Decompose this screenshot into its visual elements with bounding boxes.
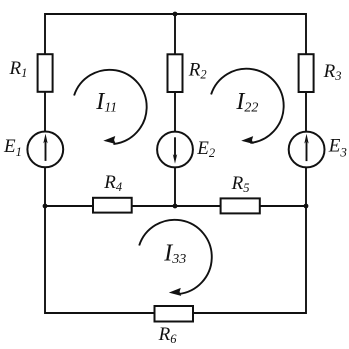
source E3 xyxy=(289,132,325,168)
wire outer loop (top/left/right/bottom) xyxy=(45,14,306,313)
arrow E1 (up) xyxy=(45,141,47,161)
node top junction xyxy=(173,12,178,17)
source E2 xyxy=(157,132,193,168)
resistor R1 xyxy=(38,54,53,92)
wire middle vertical branch xyxy=(174,14,176,206)
arrow E2 (down) xyxy=(174,137,176,157)
mesh current I33 arc xyxy=(139,220,212,297)
mesh current I11 arc xyxy=(74,70,147,145)
resistor R5 xyxy=(221,198,260,213)
arrow E3 (up) xyxy=(306,141,308,161)
resistor R3 xyxy=(299,54,314,92)
node left middle junction xyxy=(43,204,48,209)
mesh current I22 arc xyxy=(211,69,284,145)
node center junction xyxy=(173,204,178,209)
resistor R6 xyxy=(155,306,194,322)
source E1 xyxy=(27,132,63,168)
wire middle horizontal xyxy=(45,205,306,207)
resistor R2 xyxy=(168,54,183,92)
resistor R4 xyxy=(93,198,132,213)
node right middle junction xyxy=(304,204,309,209)
